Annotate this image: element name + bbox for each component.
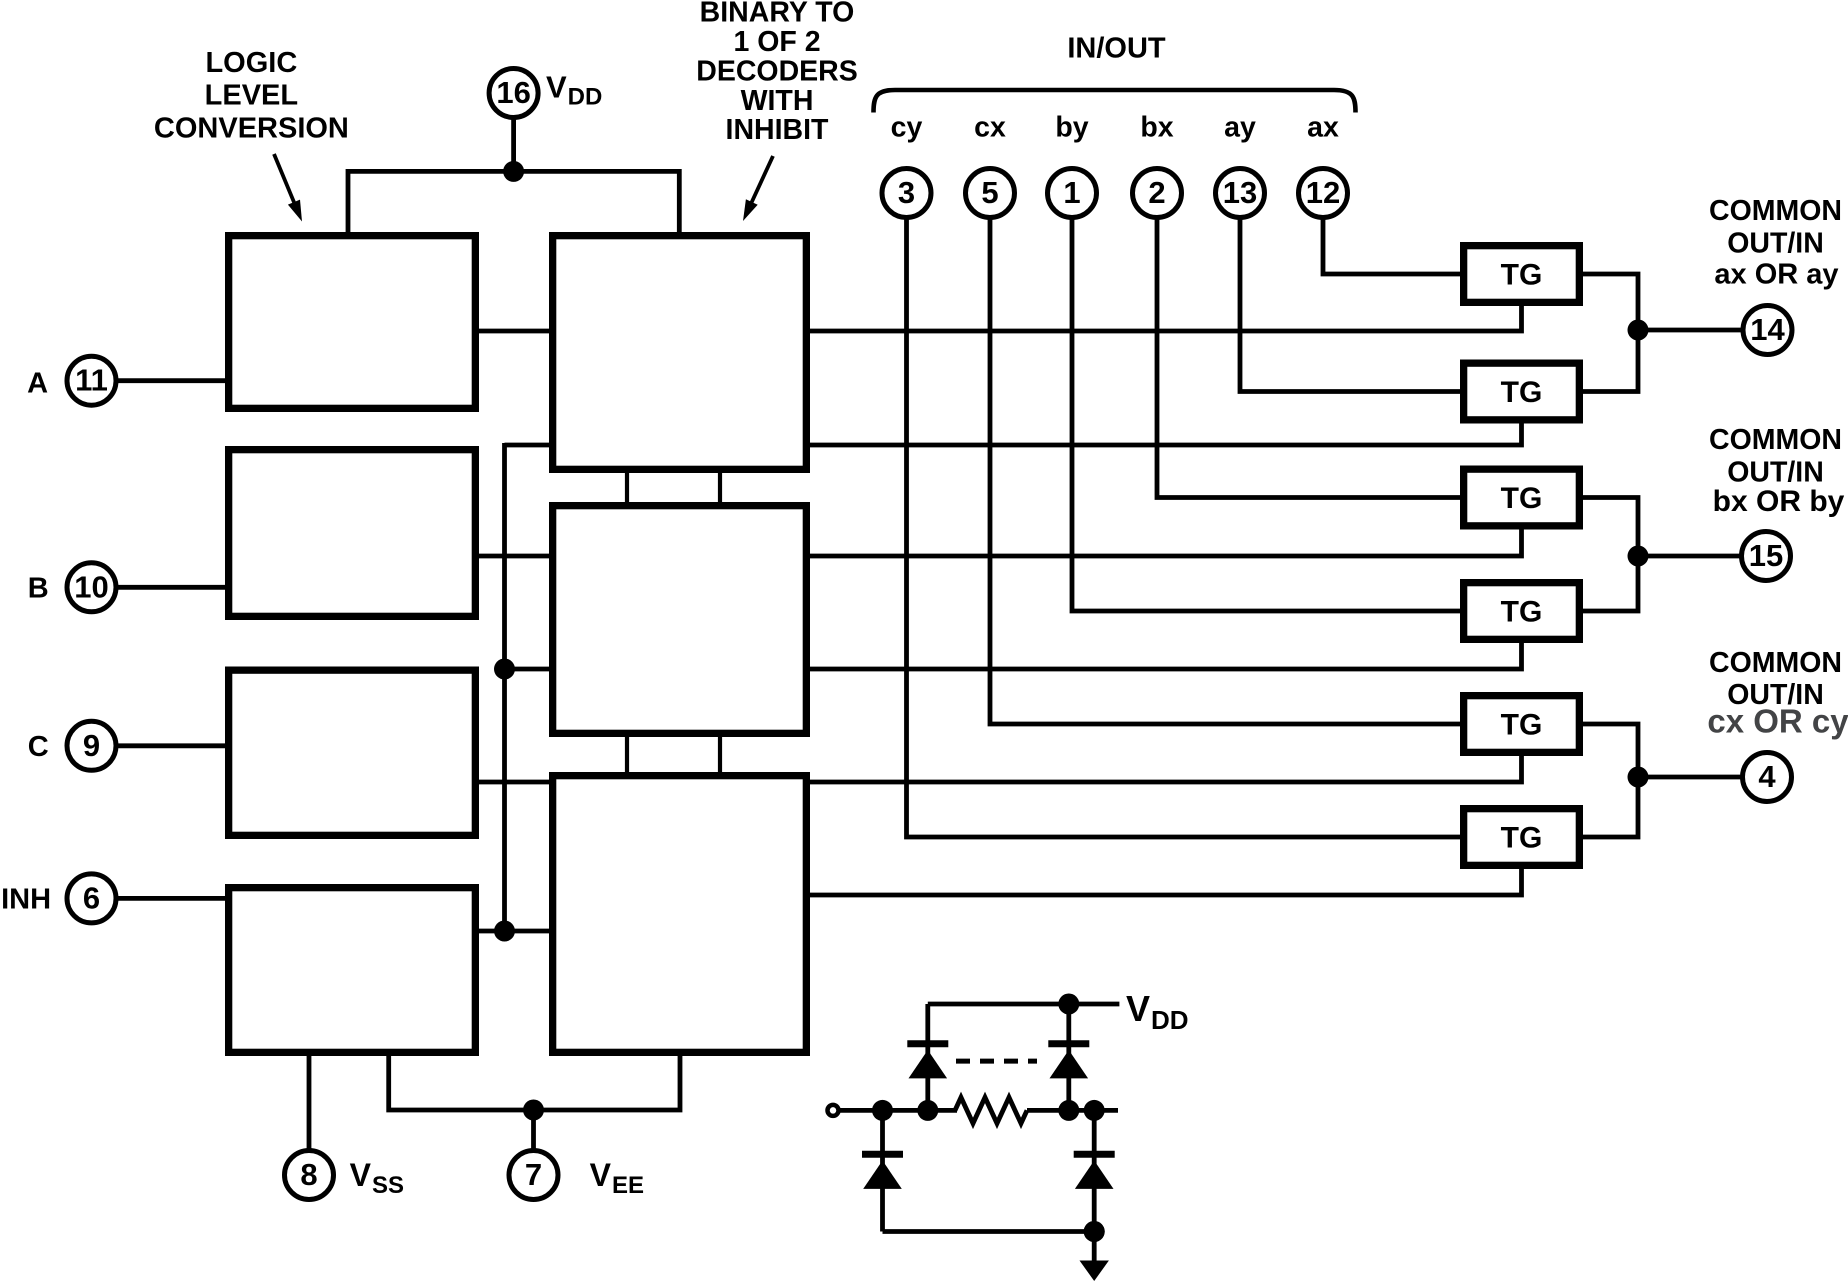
svg-text:V: V — [590, 1157, 612, 1193]
svg-text:1 OF 2: 1 OF 2 — [733, 26, 820, 58]
svg-text:TG: TG — [1501, 822, 1543, 855]
svg-text:1: 1 — [1063, 175, 1080, 210]
svg-text:13: 13 — [1223, 175, 1257, 210]
svg-text:6: 6 — [83, 880, 100, 915]
svg-text:B: B — [28, 572, 49, 604]
svg-text:COMMON: COMMON — [1709, 424, 1842, 456]
svg-text:LEVEL: LEVEL — [205, 80, 298, 112]
svg-text:V: V — [1126, 988, 1150, 1029]
svg-text:WITH: WITH — [741, 85, 814, 117]
svg-text:INHIBIT: INHIBIT — [726, 114, 830, 146]
svg-text:cy: cy — [891, 112, 923, 144]
svg-text:IN/OUT: IN/OUT — [1067, 33, 1166, 65]
svg-text:CONVERSION: CONVERSION — [154, 113, 349, 145]
svg-text:LOGIC: LOGIC — [205, 47, 297, 79]
svg-text:cx OR cy: cx OR cy — [1707, 702, 1848, 739]
svg-text:V: V — [350, 1157, 372, 1193]
svg-text:TG: TG — [1501, 376, 1543, 409]
svg-text:15: 15 — [1749, 538, 1783, 573]
svg-text:TG: TG — [1501, 259, 1543, 292]
svg-text:DD: DD — [568, 84, 603, 111]
svg-text:ax: ax — [1307, 112, 1339, 144]
svg-text:INH: INH — [1, 883, 51, 915]
svg-text:2: 2 — [1148, 175, 1165, 210]
svg-text:4: 4 — [1758, 759, 1776, 794]
svg-text:16: 16 — [496, 75, 530, 110]
svg-text:by: by — [1055, 112, 1088, 144]
svg-text:SS: SS — [372, 1172, 404, 1199]
svg-text:EE: EE — [612, 1172, 644, 1199]
svg-text:ax OR ay: ax OR ay — [1714, 259, 1838, 291]
svg-text:BINARY TO: BINARY TO — [700, 0, 855, 29]
svg-text:5: 5 — [981, 175, 998, 210]
svg-text:14: 14 — [1750, 312, 1785, 347]
svg-text:bx OR by: bx OR by — [1713, 485, 1845, 518]
svg-text:DECODERS: DECODERS — [696, 56, 858, 88]
svg-text:C: C — [28, 731, 49, 763]
svg-text:OUT/IN: OUT/IN — [1727, 228, 1824, 260]
svg-text:8: 8 — [300, 1157, 317, 1192]
svg-text:TG: TG — [1501, 596, 1543, 629]
svg-text:A: A — [27, 367, 48, 399]
svg-text:10: 10 — [74, 569, 108, 604]
svg-text:11: 11 — [75, 363, 108, 398]
svg-text:TG: TG — [1501, 482, 1543, 515]
svg-text:COMMON: COMMON — [1709, 195, 1842, 227]
svg-text:cx: cx — [974, 112, 1006, 144]
svg-text:COMMON: COMMON — [1709, 647, 1842, 679]
svg-text:ay: ay — [1224, 112, 1256, 144]
svg-text:9: 9 — [83, 728, 100, 763]
svg-text:V: V — [546, 70, 567, 105]
svg-text:DD: DD — [1151, 1005, 1189, 1035]
svg-text:TG: TG — [1501, 709, 1543, 742]
svg-text:12: 12 — [1306, 175, 1340, 210]
svg-text:OUT/IN: OUT/IN — [1727, 456, 1824, 488]
svg-text:bx: bx — [1140, 112, 1173, 144]
svg-text:3: 3 — [898, 175, 915, 210]
svg-text:7: 7 — [525, 1157, 542, 1192]
